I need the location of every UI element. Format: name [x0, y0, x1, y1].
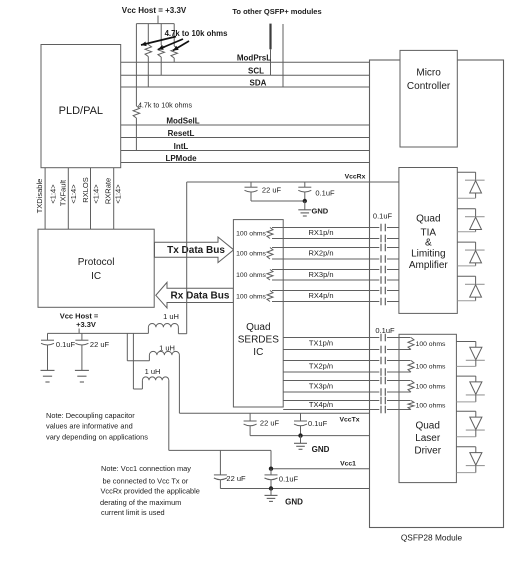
- svg-text:0.1uF: 0.1uF: [279, 474, 299, 483]
- svg-text:+3.3V: +3.3V: [76, 320, 96, 329]
- note: decoupling capacitors: [46, 411, 148, 442]
- inductor L2 1uH (VccTx feed): [127, 344, 179, 414]
- svg-text:Quad: Quad: [416, 214, 440, 225]
- wire L3 to Vcc1: [169, 450, 271, 468]
- svg-text:Protocol: Protocol: [78, 257, 115, 268]
- svg-text:100 ohms: 100 ohms: [416, 364, 446, 371]
- inductor L3 1uH (Vcc1 feed): [133, 367, 168, 450]
- wire RX1p line: [272, 227, 399, 229]
- svg-text:0.1uF: 0.1uF: [315, 189, 335, 198]
- svg-text:0.1uF: 0.1uF: [56, 340, 76, 349]
- wire TX3n line: [283, 391, 410, 393]
- net label TX2p/n: [309, 361, 333, 370]
- photodiode D4: [457, 276, 484, 301]
- svg-text:Driver: Driver: [414, 445, 441, 456]
- pin label <1:4> (RXLOS): [91, 184, 100, 204]
- value label 4.7k to 10k ohms (top) with pointer arrows: [141, 29, 228, 51]
- Quad Laser Driver U5: [399, 334, 456, 482]
- resistor R4 (4.7k-10k) to IntL: [133, 106, 140, 151]
- svg-text:<1:4>: <1:4>: [69, 184, 78, 204]
- pin label <1:4> (TXFault): [69, 184, 78, 204]
- value label 4.7k to 10k ohms (IntL pullup): [138, 102, 192, 110]
- wire cap bottoms link (VccTx): [250, 435, 369, 437]
- svg-text:<1:4>: <1:4>: [49, 184, 58, 204]
- svg-text:current limit is used: current limit is used: [101, 508, 165, 517]
- wire cap bottoms link (VccRx): [251, 200, 305, 202]
- svg-text:4.7k to 10k ohms: 4.7k to 10k ohms: [138, 102, 192, 110]
- capacitor 0.1uF coupling TX1n: [381, 346, 385, 354]
- wire Vcc rail to resistor R4: [135, 24, 137, 106]
- wire to other modules / SCL: [269, 24, 271, 76]
- svg-text:0.1uF: 0.1uF: [308, 419, 328, 428]
- value label 0.1uF (RX coupling caps): [373, 212, 393, 221]
- net label TX3p/n: [309, 381, 333, 390]
- capacitor C3 0.1uF (Vcc Host): [41, 333, 76, 370]
- net VccTx rail: [179, 413, 369, 423]
- svg-text:0.1uF: 0.1uF: [375, 326, 395, 335]
- svg-text:100 ohms: 100 ohms: [236, 230, 266, 237]
- wire bus ResetL: [121, 129, 370, 138]
- svg-text:Quad: Quad: [246, 322, 270, 333]
- net VccRx rail: [187, 174, 399, 183]
- svg-text:Note: Vcc1 connection may: Note: Vcc1 connection may: [101, 464, 191, 473]
- svg-text:Quad: Quad: [415, 421, 439, 432]
- wire TX4p line: [283, 400, 410, 402]
- capacitor 0.1uF coupling RX2n: [381, 255, 385, 263]
- wire TX4n line: [283, 409, 410, 411]
- svg-text:Tx Data Bus: Tx Data Bus: [167, 245, 225, 256]
- svg-text:To other QSFP+ modules: To other QSFP+ modules: [232, 7, 321, 16]
- resistor R2 pullup stub: [160, 24, 162, 45]
- capacitor 0.1uF coupling RX1p: [381, 224, 385, 232]
- svg-text:IntL: IntL: [174, 142, 189, 151]
- Quad TIA & Limiting Amplifier U4: [399, 168, 457, 314]
- svg-text:22 uF: 22 uF: [262, 186, 282, 195]
- capacitor C4 22uF (Vcc Host): [75, 333, 109, 370]
- wire VccRx down to inductor L1: [186, 182, 188, 334]
- svg-text:ResetL: ResetL: [168, 129, 195, 138]
- wire RX3n line: [272, 279, 399, 281]
- wire bus SCL: [121, 67, 370, 76]
- net label RX4p/n: [308, 291, 333, 300]
- svg-text:TXFault: TXFault: [58, 179, 67, 206]
- node Vcc Host = +3.3V (top): [122, 6, 187, 24]
- svg-text:PLD/PAL: PLD/PAL: [59, 105, 103, 117]
- svg-text:RX1p/n: RX1p/n: [308, 228, 333, 237]
- capacitor 0.1uF coupling TX3p: [381, 377, 385, 385]
- svg-text:&: &: [425, 238, 432, 249]
- resistor R2 (4.7k-10k) to SCL: [158, 45, 165, 75]
- wire bus ModSelL: [121, 116, 370, 125]
- net Vcc1 rail: [271, 460, 370, 468]
- capacitor 0.1uF coupling RX4n: [381, 298, 385, 306]
- svg-text:RX3p/n: RX3p/n: [308, 270, 333, 279]
- capacitor 0.1uF coupling RX3n: [381, 276, 385, 284]
- junction dot (VccRx gnd): [303, 199, 307, 203]
- net label RX1p/n: [308, 228, 333, 237]
- svg-text:vary depending on applications: vary depending on applications: [46, 433, 148, 442]
- laser diode D8: [456, 447, 484, 473]
- svg-text:Rx Data Bus: Rx Data Bus: [171, 291, 230, 302]
- svg-text:RXRate: RXRate: [104, 178, 113, 204]
- capacitor 0.1uF coupling RX1n: [381, 235, 385, 243]
- capacitor C7 22uF (Vcc1): [214, 450, 246, 488]
- svg-text:100 ohms: 100 ohms: [416, 402, 446, 409]
- ground GND (VccRx): [298, 201, 328, 216]
- svg-text:LPMode: LPMode: [165, 154, 197, 163]
- wire bus SDA: [121, 78, 370, 87]
- pin label RXRate: [104, 178, 113, 204]
- junction dot (Vcc1 gnd): [269, 486, 273, 490]
- wire Vcc to L2: [126, 333, 128, 360]
- resistor R3 pullup stub: [173, 24, 175, 46]
- net label RX3p/n: [308, 270, 333, 279]
- resistor 100 ohms termination RX4: [236, 291, 273, 302]
- svg-text:Note: Decoupling capacitor: Note: Decoupling capacitor: [46, 411, 135, 420]
- capacitor C5 22uF (VccTx): [244, 413, 280, 435]
- svg-text:100 ohms: 100 ohms: [416, 341, 446, 348]
- svg-text:RX4p/n: RX4p/n: [308, 291, 333, 300]
- pin label RXLOS: [81, 177, 90, 202]
- capacitor C6 0.1uF (VccTx): [294, 413, 328, 435]
- resistor R1 (4.7k-10k) to SDA: [145, 45, 152, 88]
- Micro Controller U6: [400, 50, 457, 147]
- svg-text:Limiting: Limiting: [411, 249, 445, 260]
- capacitor 0.1uF coupling TX3n: [381, 388, 385, 396]
- capacitor 0.1uF coupling RX4p: [381, 287, 385, 295]
- svg-text:VccRx: VccRx: [345, 174, 366, 181]
- wire RX4p line: [272, 290, 399, 292]
- node Vcc Host = +3.3V (bottom): [60, 311, 99, 333]
- resistor R3 (4.7k-10k) to ModPrsL: [171, 46, 178, 62]
- svg-text:Controller: Controller: [407, 81, 451, 92]
- wire RX2n line: [272, 258, 399, 260]
- ground GND (Vcc1): [265, 489, 304, 507]
- ground GND (C4): [75, 370, 89, 382]
- capacitor C2 0.1uF (VccRx): [298, 182, 335, 201]
- svg-text:Micro: Micro: [416, 68, 441, 79]
- photodiode D1: [457, 172, 484, 198]
- wire bus ModPrsL: [121, 54, 370, 63]
- svg-text:Vcc Host =: Vcc Host =: [60, 311, 99, 320]
- svg-text:100 ohms: 100 ohms: [236, 293, 266, 300]
- svg-text:1 uH: 1 uH: [145, 367, 161, 376]
- resistor 100 ohms termination TX3: [399, 381, 446, 393]
- svg-text:QSFP28 Module: QSFP28 Module: [401, 533, 463, 543]
- resistor 100 ohms termination TX1: [399, 338, 446, 350]
- svg-text:Vcc Host = +3.3V: Vcc Host = +3.3V: [122, 6, 187, 15]
- svg-text:GND: GND: [312, 445, 330, 454]
- pin label <1:4> (RXRate): [114, 184, 123, 204]
- junction dot (VccTx gnd): [298, 433, 302, 437]
- wire TX1n line: [283, 349, 410, 351]
- svg-text:100 ohms: 100 ohms: [236, 272, 266, 279]
- photodiode D3: [457, 242, 484, 266]
- svg-text:TX3p/n: TX3p/n: [309, 381, 333, 390]
- resistor 100 ohms termination TX2: [399, 361, 446, 373]
- svg-text:SDA: SDA: [250, 78, 267, 87]
- Rx Data Bus arrow: [156, 282, 234, 308]
- svg-text:SERDES: SERDES: [238, 335, 279, 346]
- capacitor 0.1uF coupling RX3p: [381, 266, 385, 274]
- svg-text:ModSelL: ModSelL: [166, 116, 199, 125]
- net label TX1p/n: [309, 339, 333, 348]
- svg-text:Vcc1: Vcc1: [340, 460, 356, 467]
- laser diode D6: [456, 376, 484, 402]
- wire bus LPMode: [121, 154, 370, 163]
- wire TX3p line: [283, 380, 410, 382]
- svg-text:be connected to Vcc Tx or: be connected to Vcc Tx or: [103, 476, 189, 485]
- ground GND (VccTx): [294, 436, 330, 454]
- svg-text:GND: GND: [312, 206, 329, 215]
- svg-text:1 uH: 1 uH: [159, 344, 175, 353]
- svg-text:TX1p/n: TX1p/n: [309, 339, 333, 348]
- svg-text:22 uF: 22 uF: [260, 419, 280, 428]
- svg-text:values are informative and: values are informative and: [46, 422, 133, 431]
- svg-text:VccTx: VccTx: [339, 416, 359, 423]
- svg-text:0.1uF: 0.1uF: [373, 212, 393, 221]
- wire lower rail (Vcc1): [220, 488, 369, 490]
- svg-text:TX4p/n: TX4p/n: [309, 400, 333, 409]
- resistor 100 ohms termination RX2: [236, 248, 273, 260]
- capacitor 0.1uF coupling RX2p: [381, 244, 385, 252]
- Tx Data Bus arrow: [155, 237, 234, 263]
- pin label <1:4> (TXDisable): [49, 184, 58, 204]
- svg-text:1 uH: 1 uH: [163, 312, 179, 321]
- capacitor 0.1uF coupling TX4p: [381, 397, 385, 405]
- wire TXDisable<1:4> PLD to Protocol IC: [44, 168, 46, 230]
- Protocol IC U2: [38, 229, 154, 307]
- wire RXLOS<1:4> PLD to Protocol IC: [90, 168, 92, 230]
- resistor 100 ohms termination RX3: [236, 270, 273, 281]
- pin label TXDisable: [35, 179, 44, 214]
- value label 0.1uF (TX coupling caps): [375, 326, 395, 335]
- laser diode D5: [456, 342, 484, 367]
- svg-text:RXLOS: RXLOS: [81, 177, 90, 202]
- resistor 100 ohms termination TX4: [399, 401, 446, 410]
- wire RXRate<1:4> PLD to Protocol IC: [113, 168, 115, 230]
- svg-text:22 uF: 22 uF: [226, 474, 246, 483]
- wire TX2p line: [283, 360, 410, 362]
- svg-text:Amplifier: Amplifier: [409, 260, 449, 271]
- ground GND (C3): [41, 370, 55, 382]
- wire RX2p line: [272, 247, 399, 249]
- resistor 100 ohms termination RX1: [236, 228, 273, 239]
- svg-text:ModPrsL: ModPrsL: [237, 54, 271, 63]
- svg-text:VccRx provided the applicable: VccRx provided the applicable: [101, 487, 200, 496]
- svg-text:<1:4>: <1:4>: [91, 184, 100, 204]
- svg-text:RX2p/n: RX2p/n: [308, 248, 333, 257]
- svg-text:IC: IC: [91, 271, 101, 282]
- svg-text:IC: IC: [253, 347, 263, 358]
- capacitor 0.1uF coupling TX1p: [381, 334, 385, 342]
- wire RX3p line: [272, 269, 399, 271]
- wire RX4n line: [272, 301, 399, 303]
- net label TX4p/n: [309, 400, 333, 409]
- Quad SERDES IC U3: [233, 220, 283, 407]
- wire TX2n line: [283, 371, 410, 373]
- inductor L1 1uH (VccRx feed): [148, 312, 186, 334]
- resistor R1 pullup stub: [147, 24, 149, 45]
- PLD/PAL U1: [41, 45, 121, 168]
- svg-text:100 ohms: 100 ohms: [236, 251, 266, 258]
- node To other QSFP+ modules: [232, 7, 321, 16]
- capacitor C8 0.1uF (Vcc1): [265, 469, 299, 489]
- label QSFP28 Module: [401, 533, 463, 543]
- net label RX2p/n: [308, 248, 333, 257]
- photodiode D2: [457, 209, 484, 232]
- svg-text:TX2p/n: TX2p/n: [309, 361, 333, 370]
- capacitor 0.1uF coupling TX4n: [381, 406, 385, 414]
- junction dot (Vcc1 top): [269, 467, 273, 471]
- note: Vcc1 connection: [100, 464, 200, 517]
- svg-text:<1:4>: <1:4>: [114, 184, 123, 204]
- pin label TXFault: [58, 179, 67, 206]
- capacitor 0.1uF coupling TX2n: [381, 368, 385, 376]
- wire Vcc to L3: [132, 333, 134, 389]
- wire Vcc rail top: [136, 23, 174, 25]
- wire RX1n line: [272, 238, 399, 240]
- svg-text:TXDisable: TXDisable: [35, 179, 44, 214]
- svg-text:22 uF: 22 uF: [90, 340, 110, 349]
- wire TX1p line: [283, 337, 410, 339]
- laser diode D7: [456, 411, 484, 437]
- capacitor 0.1uF coupling TX2p: [381, 357, 385, 365]
- svg-text:derating of the maximum: derating of the maximum: [100, 498, 181, 507]
- wire Vcc Host rail (bottom): [48, 332, 149, 334]
- wire bus IntL: [121, 142, 370, 151]
- wire TXFault<1:4> PLD to Protocol IC: [67, 168, 69, 230]
- capacitor C1 22uF (VccRx): [245, 182, 282, 201]
- svg-text:SCL: SCL: [248, 67, 264, 76]
- module boundary QSFP28: [370, 60, 504, 528]
- svg-text:Laser: Laser: [415, 433, 441, 444]
- svg-text:100 ohms: 100 ohms: [416, 384, 446, 391]
- wire to other modules / SDA: [282, 24, 284, 87]
- svg-text:GND: GND: [285, 497, 303, 506]
